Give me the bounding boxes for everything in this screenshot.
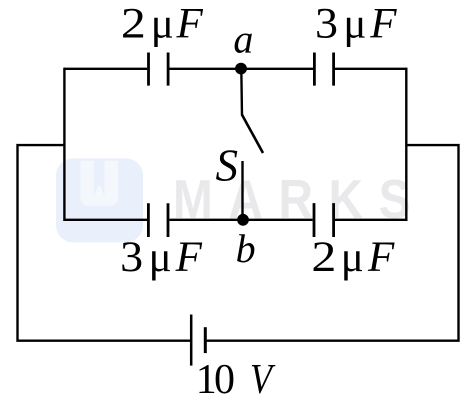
switch S blade <box>242 115 263 153</box>
capacitor C1 2uF top-left plates <box>149 53 169 86</box>
wire middle <box>64 219 406 221</box>
node b junction dot <box>237 214 249 226</box>
wire outer left loop <box>18 145 191 341</box>
capacitor C4 2uF bottom-right plates <box>314 203 334 237</box>
battery B1 long plate <box>190 315 193 366</box>
wire right inner vertical <box>405 68 407 221</box>
capacitor C2 3uF top-right plates <box>314 53 333 86</box>
wire top <box>64 68 406 70</box>
svg-text:2μF: 2μF <box>121 1 204 48</box>
wire left inner vertical <box>63 68 65 221</box>
svg-text:S: S <box>216 141 239 191</box>
node a junction dot <box>235 63 247 75</box>
svg-text:3μF: 3μF <box>315 1 397 48</box>
watermark text MARKS <box>173 168 411 230</box>
watermark logo <box>56 158 143 242</box>
wire outer right loop <box>207 145 459 341</box>
capacitor C3 3uF bottom-left plates <box>148 203 168 237</box>
battery B1 short plate <box>204 327 207 353</box>
svg-text:2μF: 2μF <box>311 234 395 281</box>
svg-text:a: a <box>233 17 253 62</box>
svg-text:3μF: 3μF <box>120 234 202 281</box>
switch S upper lead <box>240 69 243 116</box>
switch S lower lead <box>241 161 243 220</box>
svg-text:b: b <box>236 226 256 271</box>
